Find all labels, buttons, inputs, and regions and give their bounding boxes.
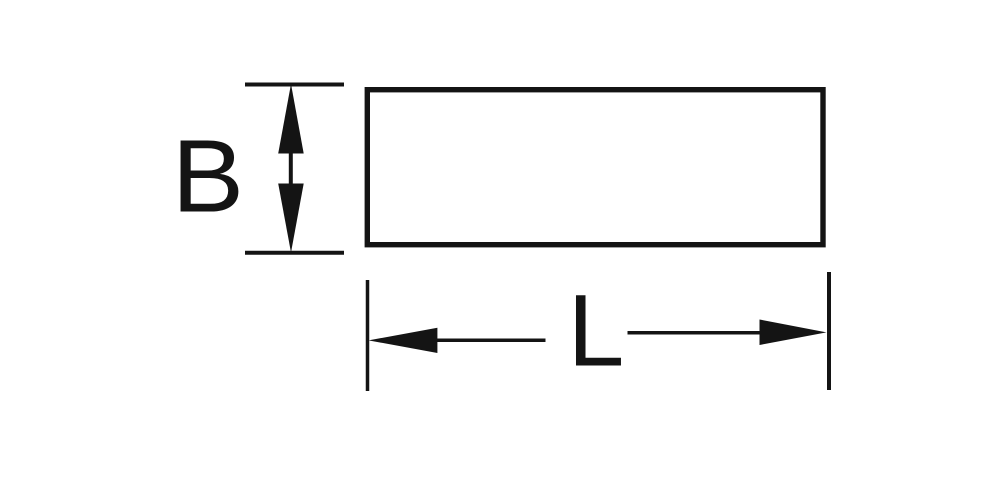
B dimension up arrow xyxy=(278,84,304,154)
L dimension left line xyxy=(437,339,546,343)
B dimension bottom tick line xyxy=(245,251,344,255)
L dimension left extension line xyxy=(366,280,370,391)
B dimension connector line xyxy=(289,152,293,185)
L dimension right extension line xyxy=(827,272,831,390)
B dimension top tick line xyxy=(245,83,344,87)
rectangle part outline xyxy=(367,90,823,245)
L dimension right arrow xyxy=(760,320,827,346)
svg-text:L: L xyxy=(568,273,625,387)
svg-text:B: B xyxy=(172,118,245,233)
L dimension left arrow xyxy=(369,328,438,353)
B dimension down arrow xyxy=(278,184,304,253)
L dimension right line xyxy=(628,331,761,335)
